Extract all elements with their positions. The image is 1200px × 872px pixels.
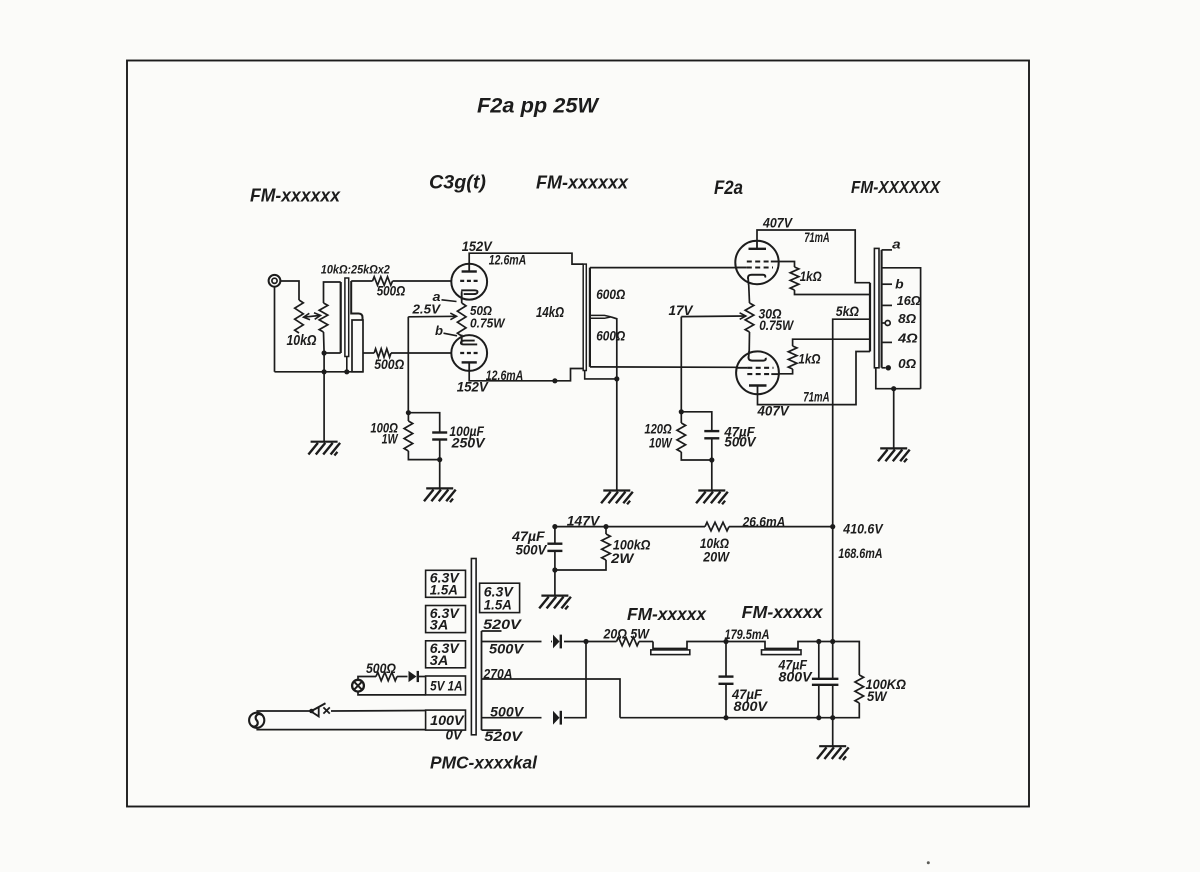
- wire 2.5V feed with arrow to 50Ω pot: [408, 313, 456, 413]
- svg-text:407V: 407V: [757, 403, 790, 418]
- value 50Ω: [470, 304, 492, 318]
- svg-text:20Ω 5W: 20Ω 5W: [603, 626, 650, 641]
- value 10kΩ:25kΩx2 (T1 ratio): [321, 263, 390, 277]
- diode D2 rectifier: [482, 642, 587, 725]
- tap a: [882, 237, 901, 251]
- transformer T3 secondary bar: [881, 250, 883, 368]
- wire 30Ω pot to U4 cathode: [748, 332, 750, 352]
- wire PSU ground rail: [620, 717, 833, 719]
- tick node a: [442, 300, 457, 302]
- svg-text:8Ω: 8Ω: [898, 311, 916, 326]
- secondary box top: [882, 268, 921, 389]
- diode D3 lamp: [409, 671, 426, 682]
- winding primary 100V: [426, 710, 466, 730]
- svg-text:270A: 270A: [483, 667, 513, 682]
- value 26.6mA: [742, 515, 786, 530]
- svg-text:500V: 500V: [516, 543, 548, 558]
- value 152V upper: [462, 239, 493, 254]
- svg-text:10kΩ:25kΩx2: 10kΩ:25kΩx2: [321, 263, 390, 277]
- label driver tube C3g(t): [429, 172, 486, 194]
- wire input ground rail: [275, 371, 364, 373]
- svg-text:250V: 250V: [451, 435, 486, 450]
- node a: [433, 290, 441, 304]
- svg-text:520V: 520V: [483, 617, 522, 632]
- value 2W: [610, 551, 635, 566]
- tube U1 C3g upper triode: [451, 263, 487, 300]
- value 410.6V: [842, 521, 883, 536]
- junction primary bottom: [322, 350, 327, 355]
- tap 270A wire: [482, 667, 621, 718]
- resistor 100Ω 1W: [404, 413, 440, 460]
- svg-text:147V: 147V: [567, 514, 600, 529]
- wire driver B+ rail: [555, 526, 705, 528]
- value 600Ω upper: [596, 286, 625, 302]
- svg-text:a: a: [892, 237, 901, 251]
- value 800V first: [734, 699, 769, 714]
- value 47µF second: [778, 658, 808, 673]
- winding heater 6.3V 3A a: [426, 606, 466, 633]
- svg-text:3A: 3A: [430, 618, 449, 633]
- svg-text:407V: 407V: [762, 216, 793, 231]
- wire T2 secondary bottom to U4 grid: [590, 366, 736, 368]
- page speck bottom right: [927, 861, 930, 864]
- value 47µF first: [731, 687, 763, 702]
- value 10kΩ dropper: [700, 536, 729, 551]
- wire cathode node top: [681, 412, 712, 431]
- transformer PT core: [471, 559, 476, 735]
- value 100kΩ bleeder: [613, 538, 651, 553]
- wire jack hot to pot: [281, 281, 299, 300]
- value 14kΩ: [536, 305, 565, 321]
- value 71mA lower: [803, 390, 829, 405]
- value 1kΩ lower: [798, 352, 820, 367]
- wire U2 plate to interstage: [469, 369, 583, 381]
- wire U1 plate to interstage: [469, 253, 583, 264]
- svg-text:10kΩ: 10kΩ: [287, 333, 318, 349]
- tap 0Ω: [882, 356, 917, 371]
- tap 8Ω: [882, 311, 917, 326]
- svg-text:500Ω: 500Ω: [366, 661, 396, 676]
- transformer T1 core: [344, 278, 349, 374]
- label input transformer FM-xxxxxx: [250, 185, 341, 206]
- svg-text:3A: 3A: [430, 653, 449, 668]
- capacitor 47µF 800V first: [719, 639, 734, 720]
- value 12.6mA lower: [486, 368, 524, 383]
- svg-text:1.5A: 1.5A: [430, 582, 458, 597]
- transformer T1 secondary lower winding box: [352, 320, 363, 372]
- wire T2 center tap to ground: [590, 315, 617, 490]
- svg-text:600Ω: 600Ω: [596, 286, 625, 302]
- svg-text:71mA: 71mA: [803, 390, 829, 405]
- value 1kΩ upper: [800, 269, 822, 284]
- resistor input transformer primary winding zigzag: [319, 303, 328, 332]
- value 500V B+: [516, 543, 548, 558]
- value 10kΩ (volume pot): [287, 333, 318, 349]
- value 47µF cathode: [723, 425, 755, 440]
- tube U2 C3g lower triode: [451, 335, 487, 372]
- node b: [435, 324, 443, 338]
- svg-text:500Ω: 500Ω: [377, 283, 406, 299]
- value 1W: [382, 432, 399, 447]
- label output tube F2a: [714, 178, 743, 199]
- svg-text:1kΩ: 1kΩ: [800, 269, 822, 284]
- switch SW power with fuse mark: [309, 703, 330, 716]
- label output transformer FM-XXXXXX: [851, 177, 941, 197]
- label choke FM-xxxxx 2: [742, 602, 824, 622]
- label PMC-xxxxkal: [430, 753, 538, 773]
- wire T2 core bottom lead: [585, 370, 620, 381]
- winding heater 6.3V 1.5A right: [480, 583, 520, 612]
- title F2a pp 25W: [477, 95, 600, 118]
- choke L1: [651, 642, 726, 655]
- svg-text:16Ω: 16Ω: [897, 293, 921, 308]
- transformer T2 primary winding box: [583, 264, 586, 370]
- svg-text:500Ω: 500Ω: [374, 356, 404, 372]
- svg-text:1W: 1W: [382, 432, 399, 447]
- ground PSU main: [817, 718, 849, 760]
- wire primary zigzag to bottom junction: [324, 332, 341, 353]
- svg-text:FM-xxxxxx: FM-xxxxxx: [250, 185, 341, 206]
- svg-text:0V: 0V: [446, 728, 463, 743]
- svg-text:14kΩ: 14kΩ: [536, 305, 565, 321]
- svg-text:520V: 520V: [484, 729, 523, 744]
- lamp pilot: [352, 680, 364, 692]
- value 71mA upper: [804, 230, 830, 245]
- svg-text:0.75W: 0.75W: [470, 316, 506, 330]
- resistor 500Ω lamp: [358, 672, 408, 681]
- value 179.5mA: [725, 627, 770, 642]
- value 500V cathode: [724, 435, 756, 450]
- svg-text:FM-xxxxx: FM-xxxxx: [742, 602, 824, 622]
- wire switch to primary: [331, 710, 426, 713]
- value 100KΩ bleeder: [866, 677, 907, 692]
- svg-text:FM-xxxxxx: FM-xxxxxx: [536, 172, 629, 193]
- wire 50Ω pot to U2 cathode: [461, 336, 463, 344]
- value 17V: [669, 303, 694, 318]
- transformer T1 secondary upper winding: [351, 281, 362, 320]
- resistor R 500Ω upper grid: [351, 277, 452, 286]
- ground interstage center tap: [601, 491, 633, 505]
- resistor 1kΩ lower g2: [778, 339, 870, 374]
- ground 147V node: [539, 570, 571, 609]
- value 12.6mA upper: [489, 253, 527, 268]
- wire jack ground down: [274, 287, 276, 372]
- value 600Ω lower: [596, 328, 625, 344]
- svg-text:500V: 500V: [489, 642, 524, 657]
- value 2.5V: [411, 302, 441, 316]
- svg-text:168.6mA: 168.6mA: [838, 546, 882, 561]
- value 250V: [451, 435, 486, 450]
- transformer PT HV winding bar: [481, 631, 483, 730]
- svg-text:1kΩ: 1kΩ: [798, 352, 820, 367]
- wire U1 cathode to 50Ω pot: [461, 291, 463, 303]
- tap 500V bottom: [490, 704, 524, 719]
- wire T2 secondary top to U3 grid: [590, 267, 736, 269]
- resistor 20Ω 5W: [586, 637, 653, 646]
- value 10W: [649, 436, 673, 451]
- tap 16Ω: [882, 293, 921, 308]
- svg-text:FM-xxxxx: FM-xxxxx: [627, 604, 707, 624]
- capacitor 47µF 800V second: [812, 639, 839, 720]
- svg-text:5V 1A: 5V 1A: [430, 678, 463, 693]
- value 30Ω: [759, 307, 782, 322]
- svg-text:600Ω: 600Ω: [596, 328, 625, 344]
- wire 17V to 30Ω pot wiper: [681, 313, 746, 412]
- resistor 100kΩ 2W: [555, 524, 610, 570]
- wire 5kΩ tap and B+ feed: [830, 319, 870, 644]
- junction 17V cathode node: [679, 409, 684, 414]
- value 47µF B+: [511, 529, 545, 544]
- svg-text:26.6mA: 26.6mA: [742, 515, 786, 530]
- svg-text:0Ω: 0Ω: [898, 356, 916, 371]
- value 20Ω 5W: [603, 626, 650, 641]
- svg-text:2W: 2W: [610, 551, 635, 566]
- svg-text:PMC-xxxxkal: PMC-xxxxkal: [430, 753, 538, 773]
- svg-text:5kΩ: 5kΩ: [836, 304, 860, 319]
- wire bias node top: [408, 413, 439, 433]
- svg-text:1.5A: 1.5A: [484, 598, 512, 613]
- value 120Ω: [644, 421, 672, 436]
- wire U4 plate to OPT bottom: [758, 352, 871, 405]
- svg-text:71mA: 71mA: [804, 230, 830, 245]
- value 20W: [702, 549, 730, 564]
- ground input section: [308, 372, 340, 456]
- wire U3 plate to OPT top: [757, 230, 870, 283]
- tick node b: [444, 333, 458, 336]
- label interstage transformer FM-xxxxxx: [536, 172, 629, 193]
- wire AC neutral to primary: [256, 729, 425, 731]
- capacitor 47µF 500V cathode: [704, 431, 719, 463]
- capacitor 47µF 500V B+: [547, 527, 562, 573]
- plug AC source: [249, 713, 264, 728]
- svg-text:12.6mA: 12.6mA: [486, 368, 524, 383]
- svg-text:C3g(t): C3g(t): [429, 172, 486, 194]
- svg-text:10W: 10W: [649, 436, 673, 451]
- value 407V lower: [757, 403, 790, 418]
- svg-text:152V: 152V: [457, 380, 489, 395]
- wire primary junction down: [323, 353, 325, 372]
- svg-text:a: a: [433, 290, 441, 304]
- svg-text:100V: 100V: [430, 713, 465, 728]
- wire U3 cathode to 30Ω pot: [748, 285, 751, 304]
- ground output transformer: [878, 389, 910, 463]
- junction 2.5V source node: [406, 410, 411, 415]
- svg-text:4Ω: 4Ω: [897, 330, 918, 345]
- svg-text:5W: 5W: [867, 689, 888, 704]
- svg-text:F2a: F2a: [714, 178, 743, 199]
- value 0.75W: [470, 316, 506, 330]
- svg-text:410.6V: 410.6V: [842, 521, 883, 536]
- svg-text:500V: 500V: [724, 435, 756, 450]
- potentiometer 10k (volume): [295, 300, 304, 333]
- value 5W bleeder: [867, 689, 888, 704]
- tube U4 F2a lower: [736, 351, 780, 395]
- svg-text:0.75W: 0.75W: [759, 318, 794, 333]
- resistor R 500Ω lower grid: [363, 349, 452, 358]
- svg-text:FM-XXXXXX: FM-XXXXXX: [851, 177, 941, 197]
- capacitor 100µF 250V: [432, 433, 447, 463]
- value 168.6mA: [838, 546, 882, 561]
- transformer T1 primary bar: [340, 282, 342, 353]
- value 100Ω: [370, 421, 398, 436]
- winding rectifier 5V 1A: [426, 676, 466, 695]
- value 500Ω upper: [377, 283, 406, 299]
- value 5kΩ: [836, 304, 860, 319]
- resistor 1kΩ upper g2: [778, 262, 870, 295]
- svg-text:2.5V: 2.5V: [411, 302, 441, 316]
- transformer T2 secondary bar: [589, 268, 591, 367]
- diode D1 rectifier: [482, 635, 589, 649]
- winding heater 6.3V 3A b: [426, 641, 466, 668]
- junction B+ driver branch: [552, 378, 557, 383]
- winding heater 6.3V 1.5A left: [426, 570, 466, 597]
- transformer T3 core: [874, 248, 879, 367]
- tap 520V top: [482, 617, 522, 632]
- ground bias network: [424, 460, 456, 503]
- input jack J1: [269, 275, 281, 287]
- tube U3 F2a upper: [735, 240, 779, 284]
- transformer T3 primary bar: [869, 283, 871, 352]
- junction input ground a: [322, 369, 327, 374]
- pot wiper arrow: [304, 313, 321, 320]
- svg-text:20W: 20W: [702, 549, 730, 564]
- value 152V lower: [457, 380, 489, 395]
- secondary box bottom: [876, 368, 921, 392]
- svg-text:12.6mA: 12.6mA: [489, 253, 527, 268]
- value 407V upper: [762, 216, 793, 231]
- resistor 10kΩ 20W: [705, 522, 833, 531]
- resistor 100KΩ 5W bleeder: [833, 642, 864, 718]
- svg-text:b: b: [895, 278, 904, 292]
- tap 500V top: [489, 642, 524, 657]
- value 500Ω lamp: [366, 661, 396, 676]
- value 500Ω lower: [374, 356, 404, 372]
- svg-text:F2a pp 25W: F2a pp 25W: [477, 95, 600, 118]
- wire AC hot to switch: [256, 710, 311, 712]
- ground output cathode: [696, 460, 728, 504]
- potentiometer 50Ω 0.75W: [457, 303, 466, 336]
- wire transformer primary top lead: [324, 282, 341, 303]
- svg-text:800V: 800V: [779, 670, 813, 685]
- wire lamp return: [358, 692, 426, 695]
- label choke FM-xxxxx 1: [627, 604, 707, 624]
- potentiometer 30Ω 0.75W: [745, 303, 754, 332]
- value 147V: [567, 514, 600, 529]
- value 100µF: [449, 424, 484, 439]
- svg-text:800V: 800V: [734, 699, 769, 714]
- svg-text:179.5mA: 179.5mA: [725, 627, 770, 642]
- tap 0V: [446, 728, 463, 743]
- value 0.75W: [759, 318, 794, 333]
- tap 4Ω: [882, 330, 918, 345]
- junction 147V node: [552, 524, 557, 529]
- svg-text:120Ω: 120Ω: [644, 421, 672, 436]
- border frame: [127, 61, 1029, 807]
- resistor 120Ω 10W: [677, 412, 712, 460]
- choke L2: [726, 642, 819, 655]
- tap 520V bottom: [482, 729, 524, 744]
- tap b: [882, 278, 904, 292]
- svg-text:b: b: [435, 324, 443, 338]
- value 800V second: [779, 670, 813, 685]
